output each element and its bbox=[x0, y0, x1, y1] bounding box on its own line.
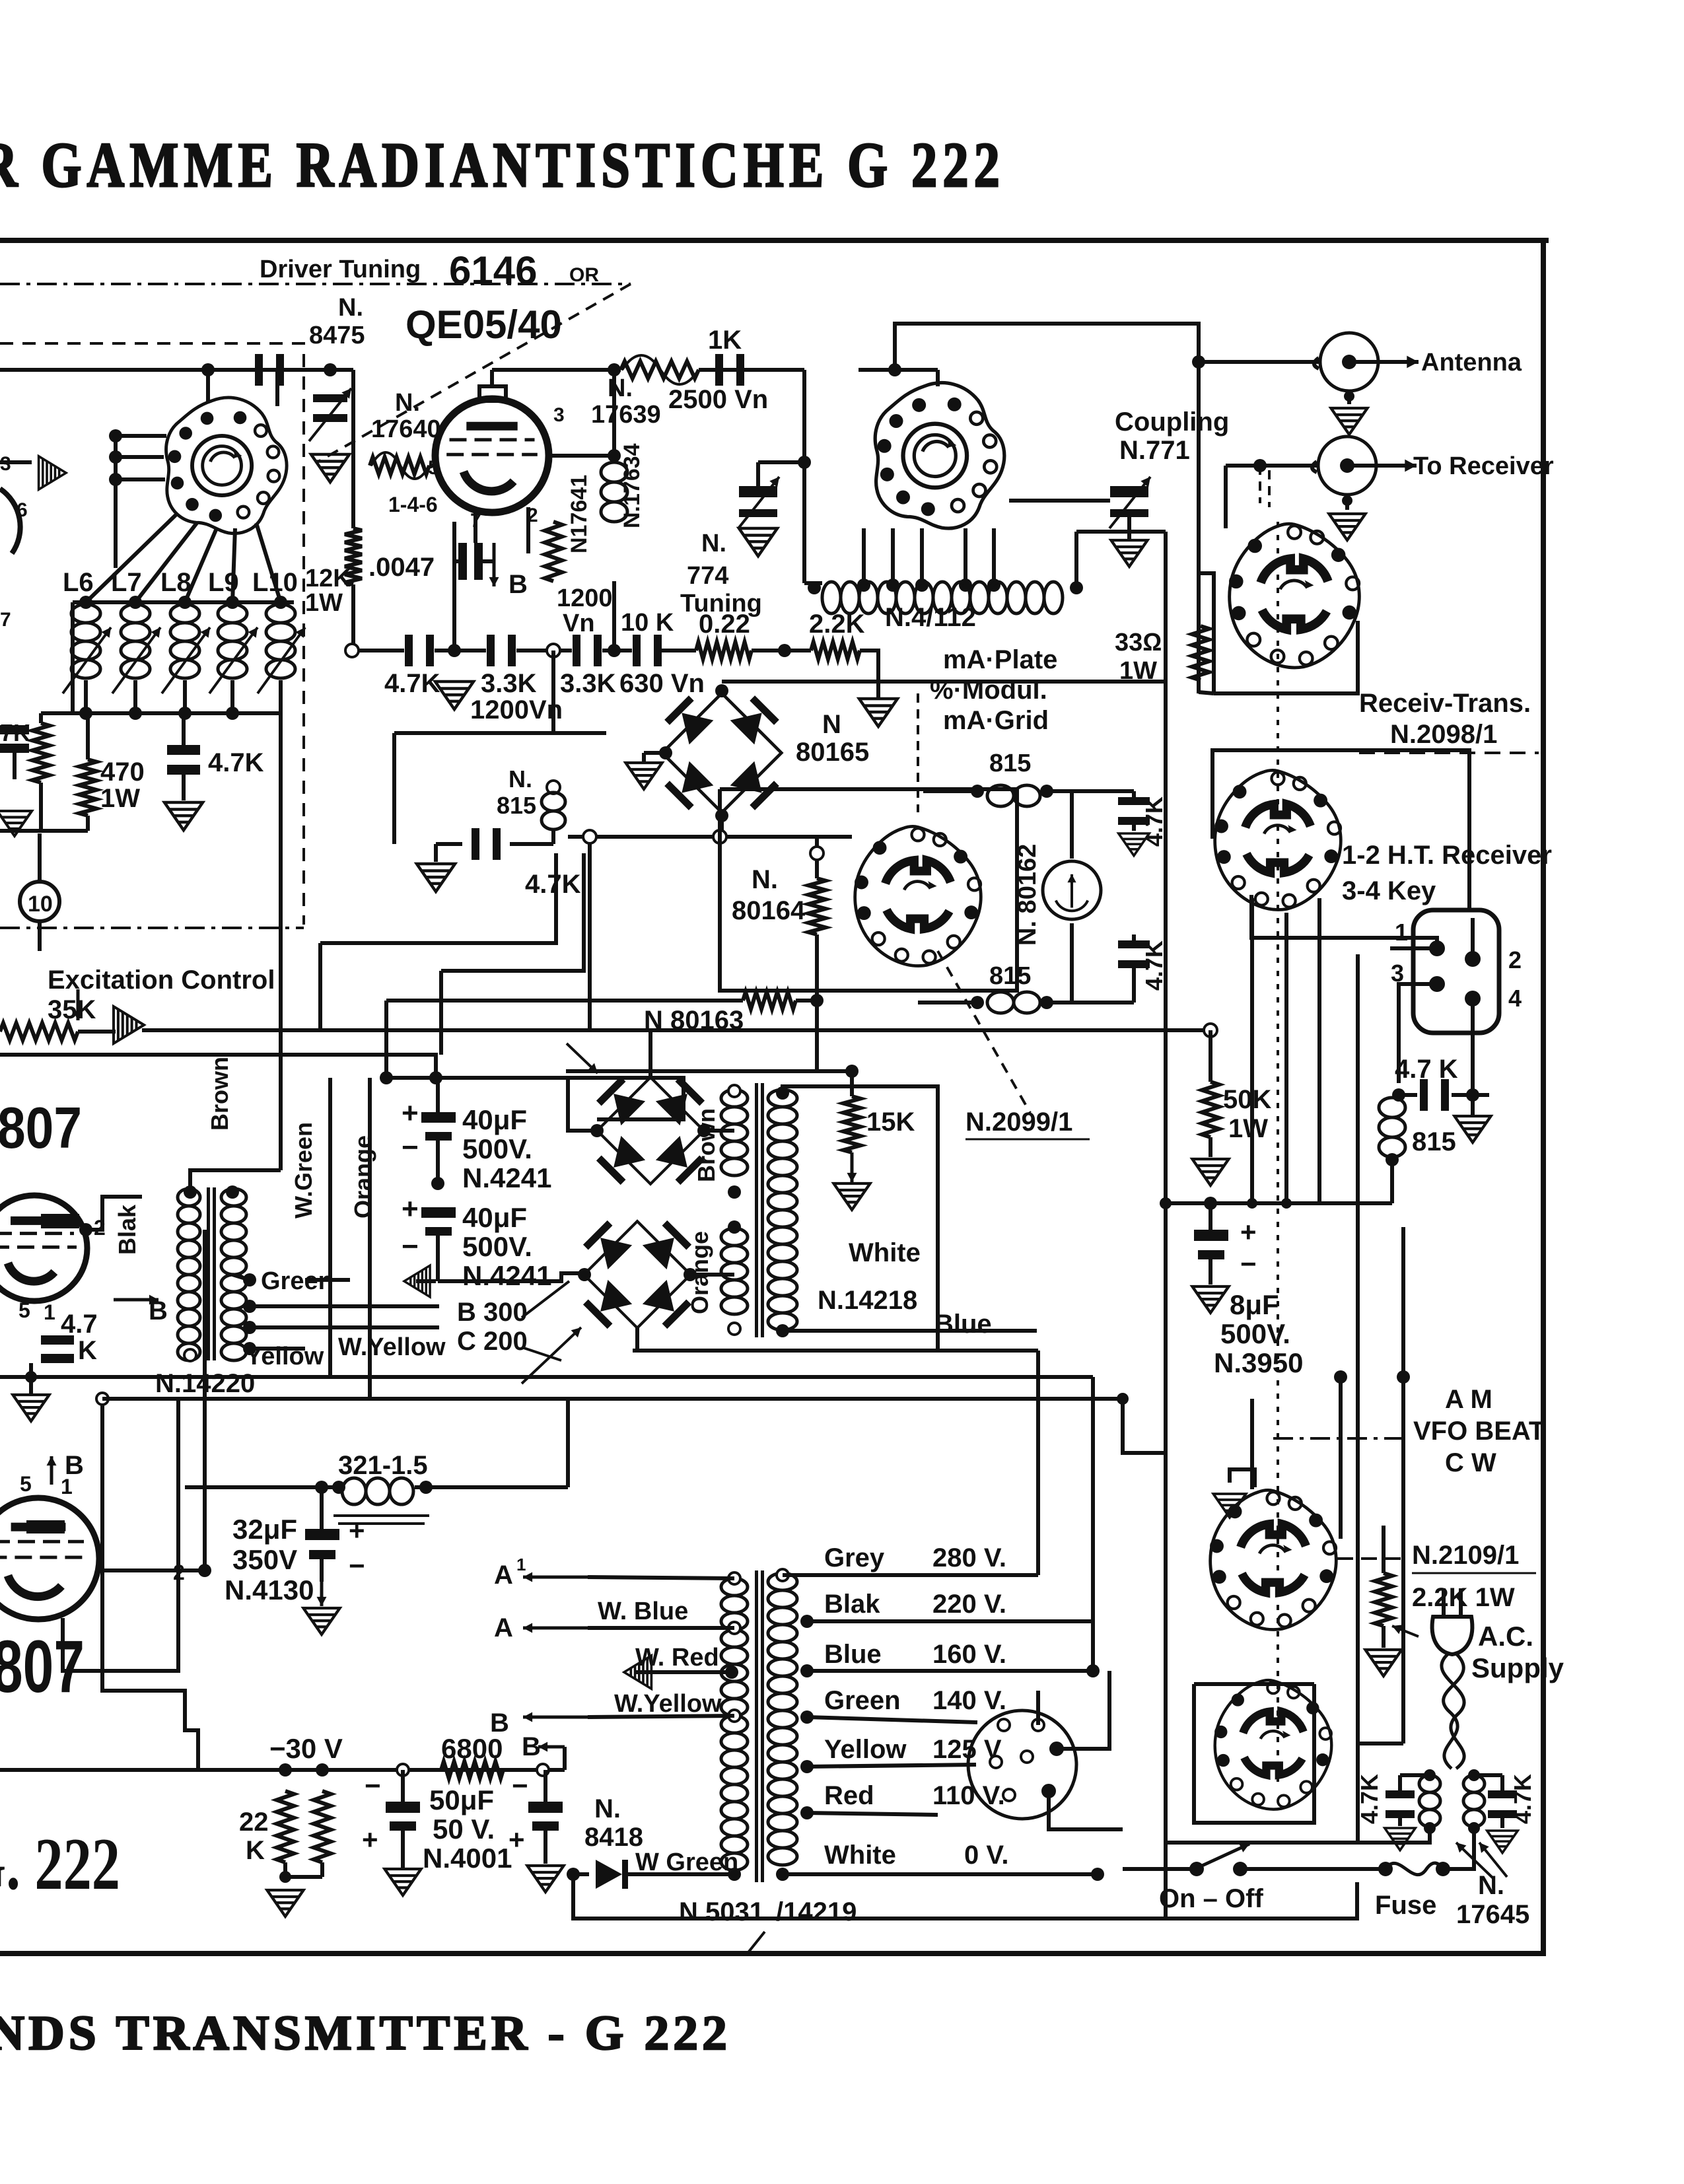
wire box top bbox=[1194, 1682, 1314, 1686]
wire plate lower 807 bbox=[98, 1230, 205, 1570]
svg-text:A: A bbox=[494, 1561, 513, 1590]
bridge rectifier C200 lower bbox=[583, 1220, 691, 1329]
svg-text:ANDS TRANSMITTER - G 222: ANDS TRANSMITTER - G 222 bbox=[0, 2006, 731, 2061]
ground bbox=[13, 1395, 49, 1421]
svg-text:3: 3 bbox=[553, 404, 565, 426]
svg-text:N.2098/1: N.2098/1 bbox=[1390, 720, 1497, 749]
svg-text:A.C.: A.C. bbox=[1478, 1621, 1533, 1652]
svg-text:8418: 8418 bbox=[584, 1823, 643, 1852]
rotary switch N.4/112 bbox=[875, 383, 1004, 528]
ground bbox=[267, 1890, 303, 1917]
svg-text:2.2K 1W: 2.2K 1W bbox=[1412, 1583, 1515, 1612]
capacitor 4.7K lower bbox=[1118, 940, 1150, 948]
resistor 15K bbox=[843, 1096, 860, 1152]
svg-text:N: N bbox=[822, 710, 841, 739]
transformer T3 N.5031/14219 core bbox=[755, 1570, 758, 1882]
ground bbox=[1385, 1828, 1415, 1850]
svg-text:W.Yellow: W.Yellow bbox=[614, 1690, 722, 1718]
svg-text:N.: N. bbox=[395, 389, 420, 417]
wire pin1 link bbox=[1251, 895, 1437, 948]
svg-text:Green: Green bbox=[824, 1686, 901, 1715]
wire grid bbox=[429, 464, 435, 468]
svg-text:White: White bbox=[849, 1238, 921, 1267]
wire antenna feed bbox=[1199, 360, 1320, 364]
6146 plate wire bbox=[490, 370, 494, 371]
svg-text:807: 807 bbox=[0, 1625, 85, 1708]
svg-text:1: 1 bbox=[1395, 919, 1408, 946]
svg-text:N17641: N17641 bbox=[567, 475, 592, 553]
svg-text:mA·Plate: mA·Plate bbox=[943, 645, 1057, 674]
svg-text:N.: N. bbox=[594, 1794, 621, 1823]
screen resistor N.17641 bbox=[545, 522, 562, 581]
svg-text:N.2109/1: N.2109/1 bbox=[1412, 1541, 1519, 1570]
rectifier diode W Green bbox=[567, 1868, 580, 1881]
svg-text:17645: 17645 bbox=[1456, 1900, 1529, 1929]
rotary switch S1 driver tuning bbox=[166, 398, 287, 534]
wire taps left bbox=[588, 1577, 734, 1578]
junction open bbox=[547, 644, 560, 657]
wire y=1622 bus bbox=[566, 1069, 852, 1073]
wire switch to fuse bbox=[1240, 1867, 1386, 1871]
ground bbox=[1192, 1286, 1228, 1313]
svg-text:+: + bbox=[509, 1824, 525, 1855]
junction bbox=[798, 456, 811, 469]
svg-text:C W: C W bbox=[1445, 1448, 1496, 1477]
coil L9 bbox=[218, 604, 247, 678]
svg-text:Grey: Grey bbox=[824, 1543, 885, 1572]
svg-text:OR: OR bbox=[569, 264, 599, 286]
wire y=1032 bridge to right rail bbox=[722, 680, 1166, 684]
long bus y=2085 bbox=[0, 1375, 1093, 1379]
svg-text:80165: 80165 bbox=[796, 738, 869, 767]
connector socket 4-pin bbox=[1413, 910, 1499, 1033]
wire to 4.7K cap bbox=[551, 829, 555, 844]
ground bbox=[1347, 391, 1351, 404]
wire plate bus bbox=[549, 454, 614, 458]
wafer switch N.2099/1 bbox=[855, 826, 981, 966]
dash-dot screen box bottom bbox=[0, 927, 304, 929]
junction bbox=[608, 644, 621, 657]
capacitor 4.7K line filter left bbox=[1386, 1790, 1415, 1798]
svg-text:3-4 Key: 3-4 Key bbox=[1342, 876, 1436, 905]
capacitor 4.7K bbox=[472, 828, 479, 860]
svg-text:N.2099/1: N.2099/1 bbox=[965, 1108, 1072, 1137]
svg-text:L7: L7 bbox=[111, 568, 142, 597]
tap left bottom bbox=[184, 1349, 196, 1361]
svg-text:N.4001: N.4001 bbox=[423, 1843, 512, 1874]
svg-text:0.22: 0.22 bbox=[699, 610, 750, 639]
resistor 0.22 bbox=[696, 642, 752, 659]
svg-text:N.5031: N.5031 bbox=[679, 1897, 764, 1926]
resistor N.80164 bbox=[808, 878, 825, 934]
plate choke N.17639 bbox=[621, 361, 699, 378]
svg-text:N.4241: N.4241 bbox=[462, 1260, 551, 1291]
svg-text:4: 4 bbox=[1508, 985, 1522, 1012]
wire W.Green column bbox=[328, 1078, 332, 1377]
svg-text:1200Vn: 1200Vn bbox=[470, 695, 563, 724]
svg-text:220 V.: 220 V. bbox=[932, 1590, 1006, 1619]
wafer switch heater select bbox=[1214, 1680, 1331, 1810]
junction open bbox=[537, 1764, 549, 1776]
svg-text:1K: 1K bbox=[708, 326, 742, 355]
wire bottom rail bbox=[1123, 1882, 1357, 1919]
svg-text:815: 815 bbox=[989, 750, 1031, 777]
svg-text:80164: 80164 bbox=[732, 896, 806, 925]
svg-text:N.771: N.771 bbox=[1119, 436, 1190, 465]
ground bbox=[1192, 1159, 1228, 1185]
svg-text:N.14220: N.14220 bbox=[155, 1369, 255, 1398]
suppressor coil N.17634 bbox=[601, 462, 627, 522]
svg-text:L10: L10 bbox=[252, 568, 298, 597]
svg-text:110 V.: 110 V. bbox=[932, 1781, 1005, 1810]
hatched arrow W.Red bbox=[624, 1656, 651, 1689]
frame right border bbox=[1541, 238, 1546, 1956]
wafer switch N.2098/1 antenna bbox=[1229, 524, 1359, 668]
svg-text:17640: 17640 bbox=[371, 415, 441, 443]
svg-text:15K: 15K bbox=[866, 1108, 915, 1137]
capacitor 3.3K bbox=[573, 635, 580, 666]
svg-text:On – Off: On – Off bbox=[1159, 1884, 1263, 1913]
wires switch to band coils bbox=[86, 514, 177, 602]
dashed pointer N.2099 top bbox=[917, 693, 919, 812]
svg-text:17639: 17639 bbox=[591, 401, 661, 429]
wires switch drops to bus bbox=[1250, 898, 1254, 1203]
svg-text:W.Yellow: W.Yellow bbox=[338, 1333, 446, 1361]
node 10 bbox=[20, 882, 59, 921]
wire switch to bus bbox=[206, 370, 210, 402]
wire modulator box bbox=[568, 835, 852, 839]
junction node N.8475 bbox=[324, 363, 337, 376]
svg-text:L9: L9 bbox=[208, 568, 239, 597]
T2 primary Orange winding bbox=[721, 1228, 748, 1314]
svg-text:7: 7 bbox=[0, 609, 11, 631]
contact wires down to tank coil bbox=[862, 528, 866, 588]
svg-text:+: + bbox=[362, 1824, 378, 1855]
hatched arrow bias bbox=[404, 1265, 430, 1297]
bottom bus of coils bbox=[73, 711, 281, 715]
svg-text:−: − bbox=[365, 1770, 381, 1801]
long bus y=2045 bbox=[633, 1349, 1038, 1353]
ground bbox=[303, 1608, 339, 1635]
coil L10 bbox=[266, 604, 295, 678]
svg-text:1W: 1W bbox=[1228, 1114, 1268, 1143]
6146 top cap bbox=[479, 386, 506, 401]
svg-text:N.: N. bbox=[608, 374, 633, 402]
svg-text:32μF: 32μF bbox=[232, 1514, 297, 1545]
wire plate to transformer bbox=[86, 1197, 142, 1230]
tap Green bbox=[243, 1273, 256, 1286]
connector J2 To Receiver bbox=[1318, 437, 1376, 495]
wafer switch N.2109/1 bbox=[1210, 1490, 1336, 1629]
capacitor 3.3K 1200Vn bbox=[487, 635, 495, 666]
svg-text:N.3950: N.3950 bbox=[1214, 1347, 1303, 1378]
capacitor .0047 at 6146 cathode bbox=[458, 543, 467, 580]
svg-text:Blue: Blue bbox=[824, 1640, 882, 1669]
dash-dot link driver tuning bbox=[0, 283, 631, 285]
wire meter loop bbox=[1047, 789, 1072, 793]
coil L6 bbox=[71, 604, 100, 678]
svg-text:W Green: W Green bbox=[635, 1849, 738, 1876]
svg-text:500V.: 500V. bbox=[462, 1231, 532, 1262]
bridge upper arrows bbox=[567, 1043, 598, 1073]
T3 left taps bbox=[728, 1572, 740, 1584]
wire top bus to resistors bbox=[39, 713, 43, 723]
svg-text:807: 807 bbox=[0, 1095, 82, 1160]
svg-text:6800: 6800 bbox=[441, 1733, 503, 1764]
capacitor 4.7K upper bbox=[1118, 797, 1150, 805]
svg-text:B: B bbox=[65, 1451, 84, 1480]
svg-text:4.7: 4.7 bbox=[61, 1310, 98, 1339]
junction bbox=[279, 1763, 292, 1777]
bridge rectifier B300 upper bbox=[596, 1076, 705, 1185]
svg-text:B: B bbox=[509, 570, 528, 599]
svg-text:N.: N. bbox=[752, 865, 778, 894]
svg-text:mA·Grid: mA·Grid bbox=[943, 706, 1049, 735]
svg-text:Blak: Blak bbox=[824, 1590, 880, 1619]
wire receiver link bbox=[1226, 464, 1318, 468]
svg-text:5: 5 bbox=[20, 1472, 32, 1496]
svg-text:3: 3 bbox=[0, 453, 11, 475]
junction bridge top bbox=[715, 684, 728, 697]
svg-text:4.7K: 4.7K bbox=[384, 669, 440, 698]
T2 primary Brown winding bbox=[721, 1090, 748, 1176]
svg-text:K: K bbox=[246, 1836, 265, 1865]
wire bus B y=1597 bbox=[0, 1055, 436, 1078]
T3 secondary winding bbox=[768, 1573, 797, 1865]
resistor 470 1W bbox=[79, 759, 96, 816]
variable capacitor N.774 bbox=[739, 489, 777, 497]
svg-text:−: − bbox=[512, 1770, 528, 1801]
wire to PA tank cap bbox=[758, 460, 804, 464]
svg-text:1W: 1W bbox=[100, 784, 140, 813]
dashed pointer to N.2099/1 bbox=[938, 951, 1030, 1113]
svg-text:50 V.: 50 V. bbox=[433, 1814, 495, 1845]
svg-text:.0047: .0047 bbox=[368, 553, 435, 582]
svg-text:N.4130: N.4130 bbox=[225, 1574, 314, 1605]
transformer T1 N.14220 core bbox=[207, 1187, 210, 1360]
wire antenna rail down bbox=[1197, 362, 1201, 693]
capacitor 4.7K decoupling bbox=[167, 745, 200, 755]
svg-text:4.7K: 4.7K bbox=[1140, 940, 1168, 991]
svg-text:To Receiver: To Receiver bbox=[1413, 452, 1554, 480]
wires switch left feeders bbox=[116, 434, 166, 438]
T1 primary winding bbox=[178, 1189, 200, 1360]
svg-text:L8: L8 bbox=[160, 568, 192, 597]
T2 taps bbox=[728, 1085, 740, 1097]
svg-text:8μF: 8μF bbox=[1230, 1289, 1279, 1320]
tube V4 807 lower bbox=[0, 1498, 99, 1619]
wire pin3 link bbox=[1399, 984, 1437, 1083]
svg-text:N.4/112: N.4/112 bbox=[885, 603, 976, 632]
wire lower switch box bbox=[1194, 1684, 1314, 1823]
svg-text:%·Modul.: %·Modul. bbox=[930, 676, 1047, 705]
capacitor 1K 2500Vn bbox=[699, 368, 804, 372]
svg-text:−: − bbox=[402, 1131, 419, 1164]
coil L7 bbox=[121, 604, 150, 678]
taps mid bbox=[243, 1300, 256, 1313]
wire bus y=1822 bbox=[1166, 1201, 1392, 1205]
arrow lower bbox=[522, 1327, 581, 1384]
svg-text:500V.: 500V. bbox=[462, 1133, 532, 1164]
svg-text:Driver Tuning: Driver Tuning bbox=[260, 256, 421, 283]
svg-text:Fuse: Fuse bbox=[1375, 1891, 1436, 1920]
T3 right taps bbox=[777, 1569, 789, 1581]
pin 2 bbox=[1465, 951, 1481, 967]
ground bbox=[1365, 1650, 1401, 1676]
tube V3 807 upper bbox=[0, 1195, 87, 1301]
fuse bbox=[1378, 1862, 1393, 1876]
connector J1 Antenna bbox=[1320, 333, 1378, 391]
svg-text:50μF: 50μF bbox=[429, 1784, 494, 1815]
svg-text:L6: L6 bbox=[63, 568, 94, 597]
svg-text:1-4-6: 1-4-6 bbox=[388, 493, 438, 516]
wire step y=1470 bbox=[441, 853, 584, 971]
svg-text:3.3K: 3.3K bbox=[481, 669, 537, 698]
capacitor 4.7K line filter right bbox=[1488, 1790, 1517, 1798]
frame top border bbox=[0, 238, 1549, 243]
wire Orange column bbox=[368, 1078, 372, 1399]
ground bbox=[417, 864, 455, 892]
wire 12K to AC bus bbox=[351, 584, 355, 651]
grid resistor N.17640 bbox=[370, 457, 429, 474]
svg-text:+: + bbox=[402, 1193, 419, 1225]
arrow B lower bbox=[50, 1456, 53, 1485]
socket wires bbox=[1036, 1691, 1040, 1725]
transformer T2 N.14218 core bbox=[755, 1083, 758, 1337]
svg-text:470: 470 bbox=[100, 757, 145, 787]
wire fuse to coil bbox=[1443, 1828, 1474, 1869]
ground bbox=[1471, 1095, 1475, 1115]
switch box wire top bbox=[1212, 750, 1469, 911]
svg-text:C 200: C 200 bbox=[457, 1327, 528, 1356]
capacitor 4.7K bbox=[405, 635, 413, 666]
svg-text:2: 2 bbox=[527, 505, 538, 526]
wire N.815 dropper bbox=[551, 651, 555, 733]
svg-text:A M: A M bbox=[1445, 1385, 1492, 1414]
wire bridge bottom bbox=[720, 816, 724, 837]
arrow B supply bbox=[114, 1298, 158, 1302]
svg-text:Brown: Brown bbox=[206, 1057, 233, 1131]
capacitor coupling bbox=[255, 354, 263, 386]
svg-text:10: 10 bbox=[28, 892, 53, 917]
capacitor 630Vn 10K bbox=[633, 635, 641, 666]
svg-text:3.3K: 3.3K bbox=[560, 669, 616, 698]
svg-text:Blue: Blue bbox=[934, 1310, 992, 1339]
ground bbox=[833, 1183, 870, 1210]
svg-text:280 V.: 280 V. bbox=[932, 1543, 1006, 1572]
ground bbox=[0, 811, 32, 836]
svg-text:7: 7 bbox=[470, 510, 481, 532]
svg-text:Excitation Control: Excitation Control bbox=[48, 966, 275, 995]
resistor 50K 1W bbox=[1204, 1024, 1217, 1037]
svg-text:N.14218: N.14218 bbox=[818, 1286, 917, 1315]
svg-text:QE05/40: QE05/40 bbox=[405, 302, 562, 347]
wire choke out right bbox=[566, 1399, 570, 1487]
wire green tap right bbox=[305, 1278, 350, 1282]
wire top feed bbox=[895, 324, 1199, 369]
bridge rectifier N 80165 bbox=[662, 693, 782, 813]
coil N.815 bbox=[542, 793, 565, 829]
svg-text:1-2 H.T. Receiver: 1-2 H.T. Receiver bbox=[1342, 841, 1552, 870]
ground bbox=[435, 682, 474, 709]
svg-text:1200: 1200 bbox=[557, 584, 613, 612]
pin 4 bbox=[1465, 991, 1481, 1006]
wire cathode steps bbox=[102, 1399, 198, 1770]
svg-text:/14219: /14219 bbox=[776, 1897, 857, 1926]
bus bends right side bbox=[1036, 1351, 1040, 1575]
wire N80163 run bbox=[386, 999, 743, 1003]
svg-text:5: 5 bbox=[18, 1298, 30, 1322]
svg-text:815: 815 bbox=[989, 962, 1031, 990]
arrow B cathode bbox=[493, 543, 496, 586]
coil L8 bbox=[170, 604, 199, 678]
dashed box left bbox=[0, 343, 304, 925]
T1 secondary winding bbox=[221, 1189, 246, 1360]
svg-text:Yellow: Yellow bbox=[824, 1735, 907, 1764]
wire exciter plate bbox=[0, 460, 32, 464]
junction bbox=[380, 1071, 393, 1084]
svg-text:Red: Red bbox=[824, 1781, 874, 1810]
dashed rotor axis bbox=[1277, 522, 1279, 1783]
wire coil bottoms bbox=[84, 680, 88, 713]
heater socket bbox=[968, 1710, 1076, 1819]
svg-text:350V: 350V bbox=[232, 1544, 297, 1575]
wire: grid bus y=560 bbox=[0, 368, 330, 372]
svg-text:22: 22 bbox=[239, 1808, 269, 1837]
trimmer capacitor N.8475 bbox=[313, 394, 347, 402]
ground bbox=[384, 1869, 421, 1895]
svg-text:Antenna: Antenna bbox=[1421, 349, 1522, 376]
svg-text:+: + bbox=[402, 1097, 419, 1129]
twisted pair cord bbox=[1442, 1654, 1464, 1769]
svg-text:Blak: Blak bbox=[114, 1204, 141, 1255]
svg-text:G. 222: G. 222 bbox=[0, 1823, 120, 1905]
wire cathode bbox=[454, 559, 458, 563]
svg-text:White: White bbox=[824, 1841, 896, 1870]
switch box wires bbox=[720, 789, 1017, 991]
svg-text:33Ω: 33Ω bbox=[1115, 629, 1162, 656]
wire upper bridge to T2 bbox=[704, 1129, 734, 1133]
wire to plug rail bbox=[1357, 1742, 1403, 1745]
wire to 6146 grid bbox=[330, 368, 353, 372]
svg-text:1W: 1W bbox=[1119, 657, 1157, 685]
resistor 2.2K bbox=[811, 642, 860, 659]
wire bottom return bbox=[573, 1874, 1123, 1919]
wire 80163 down bbox=[815, 1001, 819, 1071]
svg-text:12K: 12K bbox=[305, 565, 351, 592]
wire pin4 down bbox=[1471, 999, 1475, 1095]
T3 primary winding bbox=[721, 1578, 748, 1870]
svg-text:N.: N. bbox=[338, 294, 363, 322]
wire down from 1K to PA bbox=[802, 370, 806, 583]
junction bbox=[778, 644, 791, 657]
svg-text:Vn: Vn bbox=[563, 610, 595, 637]
807 lower top cap bbox=[26, 1520, 65, 1533]
svg-text:−: − bbox=[1240, 1248, 1257, 1279]
tank coil N.4/112 bbox=[822, 582, 1063, 614]
wafer switch N.2098/1 HT-Key bbox=[1214, 770, 1341, 909]
svg-text:7K: 7K bbox=[0, 719, 30, 746]
wire AC bus y=985 bbox=[352, 649, 404, 652]
svg-text:+: + bbox=[1240, 1216, 1257, 1248]
ground bbox=[527, 1866, 563, 1892]
junction bridge bottom bbox=[715, 809, 728, 822]
ground top bbox=[1213, 1494, 1245, 1518]
wire pin2 from box bbox=[1471, 918, 1475, 959]
svg-text:R GAMME RADIANTISTICHE G 222: R GAMME RADIANTISTICHE G 222 bbox=[0, 129, 1005, 200]
svg-text:321-1.5: 321-1.5 bbox=[338, 1451, 428, 1480]
T2 secondary winding bbox=[768, 1090, 797, 1330]
